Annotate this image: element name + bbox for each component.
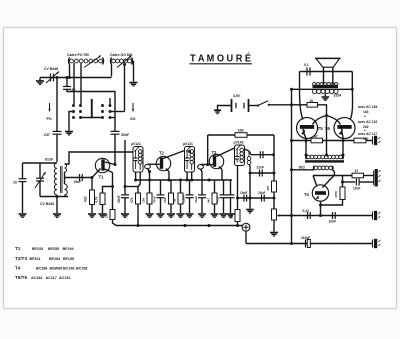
svg-text:BF195: BF195 xyxy=(63,257,74,261)
svg-text:6139: 6139 xyxy=(45,158,53,162)
svg-text:BC158: BC158 xyxy=(76,267,87,271)
svg-text:47k: 47k xyxy=(130,197,134,203)
svg-text:AC132: AC132 xyxy=(59,276,70,280)
svg-text:BSW89: BSW89 xyxy=(50,267,63,271)
svg-text:1k2: 1k2 xyxy=(363,137,369,141)
svg-text:10nF: 10nF xyxy=(329,220,337,224)
svg-text:BF233: BF233 xyxy=(32,247,43,251)
svg-text:CV B445: CV B445 xyxy=(40,202,54,206)
svg-text:T5/T6: T5/T6 xyxy=(15,275,27,280)
svg-text:10: 10 xyxy=(13,181,17,185)
svg-text:BC148: BC148 xyxy=(63,267,74,271)
svg-text:30nF: 30nF xyxy=(117,195,121,203)
svg-text:µV143: µV143 xyxy=(234,141,244,145)
svg-text:BF321: BF321 xyxy=(30,257,41,261)
svg-text:16µF: 16µF xyxy=(194,196,198,203)
svg-text:22: 22 xyxy=(355,169,359,173)
svg-text:3154: 3154 xyxy=(334,94,342,98)
svg-text:Cadre GO 830: Cadre GO 830 xyxy=(110,53,133,57)
svg-text:µV121: µV121 xyxy=(131,142,141,146)
svg-text:47: 47 xyxy=(314,135,318,139)
svg-text:47nF: 47nF xyxy=(153,196,157,203)
svg-text:GO: GO xyxy=(130,117,136,121)
svg-text:470: 470 xyxy=(266,186,270,191)
svg-text:+: + xyxy=(364,115,366,119)
svg-text:30Ω: 30Ω xyxy=(299,166,306,170)
svg-text:AC184: AC184 xyxy=(31,276,43,280)
svg-text:T1: T1 xyxy=(15,246,21,251)
svg-text:4,5V: 4,5V xyxy=(233,94,241,98)
svg-text:avec AC 184: avec AC 184 xyxy=(358,105,377,109)
svg-text:Cadre PO 750: Cadre PO 750 xyxy=(67,53,89,57)
svg-text:BF255: BF255 xyxy=(48,247,59,251)
svg-text:30nF: 30nF xyxy=(121,133,130,137)
svg-text:T4: T4 xyxy=(15,266,21,271)
svg-text:avec AC 117: avec AC 117 xyxy=(358,132,377,136)
svg-text:T A M O U R É: T A M O U R É xyxy=(190,52,251,65)
svg-text:T2/T3: T2/T3 xyxy=(15,256,27,261)
svg-text:T1: T1 xyxy=(99,175,105,180)
svg-text:47µF: 47µF xyxy=(216,196,220,203)
svg-text:0,1: 0,1 xyxy=(304,63,309,67)
svg-text:4,7k: 4,7k xyxy=(95,196,99,203)
svg-text:22nF: 22nF xyxy=(258,191,265,195)
svg-text:10nF: 10nF xyxy=(240,191,247,195)
svg-text:T3: T3 xyxy=(212,150,218,155)
svg-text:T2: T2 xyxy=(159,151,165,156)
svg-text:1k3: 1k3 xyxy=(363,110,369,114)
svg-text:BC286: BC286 xyxy=(36,267,47,271)
svg-text:4k7: 4k7 xyxy=(207,198,211,203)
svg-text:BF254: BF254 xyxy=(49,257,61,261)
svg-text:15nF: 15nF xyxy=(74,180,82,184)
svg-text:10K: 10K xyxy=(238,129,245,133)
svg-text:10nF: 10nF xyxy=(353,187,360,191)
svg-text:1M: 1M xyxy=(173,198,177,203)
svg-text:420: 420 xyxy=(84,196,88,202)
svg-text:PO: PO xyxy=(47,117,52,121)
svg-text:2,2nF: 2,2nF xyxy=(182,195,186,203)
svg-text:4700: 4700 xyxy=(334,191,338,198)
svg-text:AC117: AC117 xyxy=(46,276,57,280)
svg-text:10k: 10k xyxy=(142,198,146,203)
svg-text:BF194: BF194 xyxy=(63,247,75,251)
svg-text:T4: T4 xyxy=(304,192,310,197)
svg-text:T5: T5 xyxy=(318,126,324,131)
svg-text:CV B446: CV B446 xyxy=(44,67,58,71)
svg-text:237: 237 xyxy=(44,133,50,137)
svg-text:T6: T6 xyxy=(325,126,331,131)
svg-text:1M: 1M xyxy=(230,214,234,219)
svg-text:10k: 10k xyxy=(163,198,167,203)
svg-text:µV121: µV121 xyxy=(183,142,193,146)
svg-text:22nF: 22nF xyxy=(257,166,264,170)
svg-text:avec AC 132: avec AC 132 xyxy=(358,120,377,124)
svg-text:1k: 1k xyxy=(310,99,314,103)
